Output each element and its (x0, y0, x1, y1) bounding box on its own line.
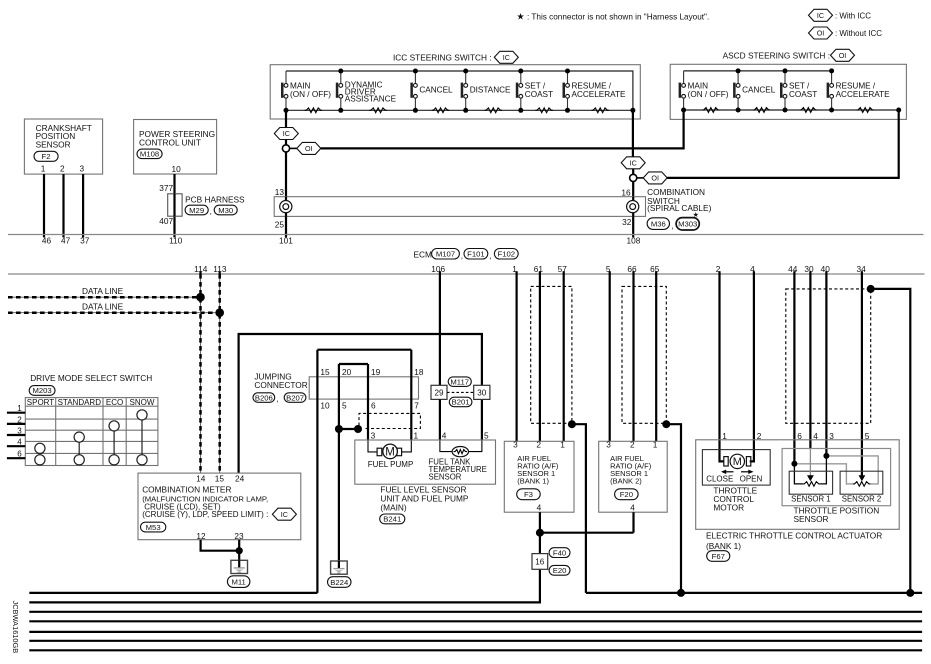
wire IC hexagon to junction node (285, 140, 287, 146)
junction dot meter ground (236, 547, 243, 554)
svg-text:,: , (461, 251, 463, 260)
svg-text:7: 7 (414, 401, 419, 411)
connector oval M36 (647, 218, 669, 230)
arrow OPEN (right) (741, 470, 754, 474)
wire ECM 30 to throttle position sensor pin 4 (wiper 1) (809, 274, 811, 449)
component box POWER STEERING CONTROL UNIT (134, 120, 217, 175)
ASCD bottom bus wire (684, 109, 899, 111)
svg-text:★: ★ (517, 12, 525, 22)
svg-text:3: 3 (513, 440, 518, 450)
svg-text:M: M (733, 456, 742, 468)
shield (dashed) around A/F bank1 wires (531, 286, 572, 423)
svg-text:13: 13 (275, 187, 285, 197)
ECM top boundary line (8, 234, 924, 236)
svg-text:: With ICC: : With ICC (835, 12, 871, 21)
wire meter pin 12 to ground junction (201, 540, 240, 551)
fuel tank temperature sensor symbol (thermistor) (452, 447, 468, 457)
svg-text:,: , (490, 251, 492, 260)
connector oval B241 (380, 514, 405, 524)
svg-text:DRIVE MODE SELECT SWITCH: DRIVE MODE SELECT SWITCH (30, 373, 152, 383)
svg-text:(ON / OFF): (ON / OFF) (290, 90, 331, 99)
connector oval B206 (253, 393, 275, 403)
switch RESUME / (ICC) (563, 71, 627, 110)
svg-text:16: 16 (621, 187, 631, 197)
arrow CLOSE (left) (721, 470, 734, 474)
svg-text:ECM: ECM (414, 249, 433, 259)
svg-text:ACCELERATE: ACCELERATE (836, 90, 891, 99)
labels FUEL TANK TEMPERATURE SENSOR (429, 457, 487, 481)
svg-text:IC: IC (630, 158, 637, 167)
hexagon OI on ASCD right branch (643, 172, 667, 184)
wiper 1 (gray) with arrow (807, 449, 814, 482)
bridge wire jumping connector 15 to 18 (317, 349, 411, 351)
svg-text:M108: M108 (140, 150, 159, 159)
svg-text:OI: OI (839, 51, 847, 60)
svg-text:CONTROL UNIT: CONTROL UNIT (139, 137, 201, 147)
svg-text:16: 16 (535, 558, 545, 567)
wire TPS pin6 to sensor1 track left (794, 464, 803, 484)
svg-text:(ON / OFF): (ON / OFF) (688, 90, 729, 99)
pin labels 12 23 of combination meter (196, 531, 244, 541)
connector oval M108 (137, 149, 162, 159)
svg-text:101: 101 (279, 236, 293, 246)
pin labels 14 15 24 of combination meter (196, 474, 244, 484)
wire junction down through connector 16 to bus (29, 533, 540, 603)
svg-text:STANDARD: STANDARD (58, 398, 102, 407)
switch CANCEL (ASCD) (733, 71, 776, 110)
svg-text:4: 4 (442, 430, 447, 440)
svg-text:10: 10 (171, 164, 181, 174)
wire DATA LINE 2 (dashed) (8, 312, 220, 314)
svg-text:61: 61 (534, 264, 544, 274)
junction dot bus1 bank2 drain (677, 589, 685, 597)
hexagon IC on ICC right output (621, 157, 645, 169)
row pin stubs and labels 1 2 3 4 6 (7, 404, 25, 459)
pin labels 3 2 1 of A/F bank1 (513, 440, 565, 450)
switch DISTANCE (ICC) (461, 71, 511, 110)
component box AIR FUEL RATIO (A/F) SENSOR 1 (BANK 1) (504, 441, 574, 512)
bus line 7 (29, 649, 922, 651)
svg-text:COMBINATION METER: COMBINATION METER (142, 485, 231, 495)
connector oval B224 (328, 577, 352, 588)
ECM bottom boundary line (8, 273, 925, 275)
svg-text:18: 18 (414, 367, 424, 377)
track wire sensor1 left (gray) (794, 464, 853, 484)
svg-text:47: 47 (61, 236, 71, 246)
svg-text:M117: M117 (450, 377, 469, 386)
component box COMBINATION SWITCH (SPIRAL CABLE) (274, 197, 645, 217)
ECM bottom pin stubs (201, 271, 862, 275)
svg-text:15: 15 (320, 367, 330, 377)
spiral cable symbol right (627, 201, 639, 213)
connector oval M29 (185, 205, 208, 215)
junction dot data line 2 / pin 113 (215, 308, 224, 317)
svg-text:14: 14 (196, 474, 206, 484)
connector oval M303 (bold) (676, 218, 699, 230)
svg-text:20: 20 (342, 367, 352, 377)
svg-text:COAST: COAST (789, 90, 817, 99)
ASCD top bus junction dots (736, 68, 835, 73)
switch SET / (ASCD) (780, 71, 817, 110)
wire ECM 2 to throttle motor pin 1 (720, 274, 724, 461)
bus line 4 (29, 620, 922, 622)
shield drain dot bank1 (568, 420, 576, 428)
junction dot on ground wire (335, 425, 343, 433)
pin labels 10 5 6 7 (320, 401, 419, 411)
bridge wire jumping connector 20 to 19 (339, 363, 368, 365)
wire ECM 65 to A/F sensor bank2 pin 1 (655, 274, 657, 441)
wire meter pin 23 to ground M11 (238, 540, 240, 561)
svg-text:CLOSE: CLOSE (706, 474, 733, 483)
resistor track sensor 2 (853, 482, 871, 487)
svg-text:B206: B206 (255, 393, 273, 402)
wiper 2 arrow (859, 475, 866, 481)
svg-text:SNOW: SNOW (130, 398, 155, 407)
svg-text:,: , (210, 207, 212, 216)
svg-text:37: 37 (80, 236, 90, 246)
svg-text:DISTANCE: DISTANCE (470, 86, 511, 95)
switch box ICC STEERING SWITCH (270, 65, 640, 119)
svg-text:JCBWA1610GB: JCBWA1610GB (11, 601, 20, 654)
svg-text:3: 3 (371, 430, 376, 440)
sensor 2 box (840, 471, 883, 494)
svg-text:25: 25 (275, 220, 285, 230)
svg-text:65: 65 (650, 264, 660, 274)
svg-text:ELECTRIC THROTTLE CONTROL ACTU: ELECTRIC THROTTLE CONTROL ACTUATOR (706, 530, 882, 540)
wire ECM 5 to A/F sensor bank2 pin 3 (609, 274, 611, 441)
wire node 2 to OI hexagon 2 (637, 177, 644, 179)
dashed link between connector halves 29-30 (447, 391, 474, 393)
legend hexagon OI : Without ICC (809, 27, 833, 39)
svg-text:E20: E20 (553, 566, 567, 575)
svg-text:DATA LINE: DATA LINE (82, 301, 124, 311)
wire connector 29 down to fuel tank temperature sensor pin 4 (439, 399, 441, 440)
wire ECM 114 to combination meter pin 14 (dashed) (200, 274, 202, 473)
component box CRANKSHAFT POSITION SENSOR (24, 119, 102, 174)
junction dot data line 1 / pin 114 (196, 293, 205, 302)
svg-text:19: 19 (371, 367, 381, 377)
svg-text:IC: IC (817, 11, 824, 20)
svg-text:B224: B224 (330, 578, 349, 587)
wire IC hexagon to junction node 2 (632, 169, 634, 175)
shield drain dot of fuel pump shield (354, 425, 362, 433)
svg-text:SENSOR 1: SENSOR 1 (791, 495, 830, 504)
svg-text:6: 6 (17, 450, 22, 459)
ASCD top bus wire (684, 70, 832, 72)
svg-text:F20: F20 (620, 490, 633, 499)
svg-text:(MAIN): (MAIN) (380, 502, 407, 512)
wire connector 30 down to fuel tank temperature sensor pin 5 (481, 399, 483, 440)
svg-text:ASSISTANCE: ASSISTANCE (345, 95, 397, 104)
connector oval F67 (707, 551, 730, 562)
wire ASCD MAIN switch down (682, 110, 684, 150)
labels FUEL LEVEL SENSOR UNIT AND FUEL PUMP (MAIN) (380, 485, 469, 513)
pin labels 1 2 6 4 3 5 of electric throttle control actuator (722, 431, 869, 441)
svg-text:4: 4 (537, 503, 542, 513)
connector oval M203 (29, 386, 55, 396)
switch MAIN (ICC) (281, 71, 331, 110)
switch CANCEL (ICC) (410, 71, 453, 110)
resistors between ICC switch legs (305, 108, 609, 113)
ICC bottom bus junction dots (284, 108, 636, 113)
svg-text:6: 6 (371, 401, 376, 411)
svg-text:(BANK 2): (BANK 2) (610, 477, 642, 486)
wire ECM 113 to combination meter pin 15 (dashed) (219, 274, 221, 473)
ICC bottom bus wire (286, 109, 633, 111)
svg-text:COAST: COAST (525, 90, 553, 99)
pin labels 3 1 4 5 of fuel level sensor unit (371, 430, 489, 440)
svg-text:F67: F67 (712, 552, 725, 561)
labels SENSOR 1 / SENSOR 2 (791, 495, 881, 504)
connector oval E20 (549, 565, 570, 575)
svg-text:108: 108 (626, 236, 640, 246)
svg-text:2: 2 (630, 440, 635, 450)
svg-text:2: 2 (536, 440, 541, 450)
wire spiral cable pin 32 to ECM 108 (632, 216, 634, 237)
svg-text:10: 10 (320, 401, 330, 411)
wire crankshaft pin 1 to ECM 46 (43, 174, 45, 237)
svg-text:3: 3 (79, 164, 84, 174)
pin labels 3 2 1 of A/F bank2 (606, 440, 658, 450)
connector oval F3 (517, 489, 541, 500)
svg-text:1: 1 (17, 404, 22, 413)
svg-text:F3: F3 (524, 490, 533, 499)
svg-text:OI: OI (817, 29, 825, 38)
svg-text:2: 2 (60, 164, 65, 174)
svg-text:1: 1 (653, 440, 658, 450)
shield drain wire bank1 to ground bus (572, 424, 586, 593)
svg-text:OI: OI (305, 144, 313, 153)
wire ECM 61 to A/F sensor bank1 pin 2 (539, 274, 541, 441)
svg-text:3: 3 (17, 426, 22, 435)
wire OI hexagon 2 to ASCD right leg (667, 177, 899, 179)
wire jumping connector pin 18/7 to fuel pump pin 1 (410, 350, 412, 440)
ground bus line 1 right segment (shield drains) (586, 592, 922, 594)
inner box throttle position sensor (782, 449, 891, 506)
ASCD bottom bus junction dots (681, 108, 901, 113)
connector oval B207 (284, 393, 306, 403)
hexagon OI on ASCD branch (297, 142, 321, 154)
wire crankshaft pin 3 to ECM 37 (82, 174, 84, 237)
wire combination meter pin 24 to connector M117/B201 pin 30 (239, 334, 482, 473)
pin box 30 (474, 385, 490, 399)
svg-text:B201: B201 (452, 398, 470, 407)
component box COMBINATION METER (138, 473, 301, 540)
hexagon IC on ICC switch output (274, 128, 298, 140)
wire spiral cable pin 25 to ECM 101 (285, 216, 287, 237)
svg-text:DATA LINE: DATA LINE (82, 286, 124, 296)
ground symbol B224 (331, 561, 348, 574)
svg-text:24: 24 (235, 474, 245, 484)
shield (dashed) around throttle position sensor wires (786, 289, 871, 423)
shield (dashed) around A/F bank2 wires (622, 286, 666, 423)
svg-text:57: 57 (558, 264, 568, 274)
ICC top bus junction dots (338, 69, 570, 74)
svg-text:SENSOR: SENSOR (36, 139, 71, 149)
svg-text:IC: IC (503, 53, 510, 62)
svg-text:,: , (277, 395, 279, 404)
hexagon OI for ASCD label (831, 49, 855, 61)
pin labels 1 2 3 of crankshaft sensor (41, 164, 85, 174)
switch contacts drive mode select (35, 410, 147, 465)
wire jumping connector pin 20/5 down to ground B224 (338, 364, 340, 561)
connector oval M53 (141, 522, 166, 532)
svg-text:1: 1 (560, 440, 565, 450)
svg-text:4: 4 (630, 503, 635, 513)
wire ECM 34 to throttle position sensor pin 5 (wiper 2) (861, 274, 863, 476)
switch RESUME / (ASCD) (827, 71, 891, 110)
wire ICC MAIN switch down to IC connector symbol (285, 110, 287, 128)
switch box ASCD STEERING SWITCH (670, 64, 906, 119)
svg-text:M36: M36 (651, 219, 666, 228)
wire crankshaft pin 2 to ECM 47 (62, 174, 64, 237)
switch MAIN (ASCD) (679, 71, 729, 110)
svg-text:F40: F40 (553, 548, 566, 557)
throttle control motor symbol M (724, 454, 751, 468)
sub-box throttle control motor (702, 450, 770, 486)
svg-text:(SPIRAL CABLE): (SPIRAL CABLE) (647, 203, 711, 213)
wire ECM 57 to A/F sensor bank1 pin 1 (563, 274, 565, 441)
connector oval F2 (34, 151, 58, 161)
wire A/F bank2 pin 4 down to junction (632, 512, 634, 533)
svg-text:B241: B241 (383, 515, 401, 524)
table DRIVE MODE SELECT SWITCH grid (25, 398, 158, 466)
junction dot TPS pin 6 (791, 461, 797, 467)
wire node 2 down to spiral cable pin 16 (632, 182, 634, 197)
wire TPS pin3 to sensor1 track right (820, 456, 826, 484)
wire ECM 4 to throttle motor pin 2 (750, 274, 754, 461)
fuel pump motor symbol (377, 444, 402, 459)
svg-text:M11: M11 (231, 577, 245, 586)
wire jumping connector pin 15/10 down to ground bus (316, 350, 318, 593)
svg-text:M29: M29 (189, 206, 204, 215)
junction node circle 2 (630, 174, 637, 181)
wire A/F bank1 pin 4 down (539, 512, 541, 533)
ground symbol M11 (231, 560, 248, 573)
svg-text:OPEN: OPEN (740, 474, 763, 483)
svg-text:5: 5 (342, 401, 347, 411)
component box ELECTRIC THROTTLE CONTROL ACTUATOR (696, 440, 900, 530)
labels ELECTRIC THROTTLE CONTROL ACTUATOR (BANK 1) (706, 530, 882, 551)
labels CLOSE OPEN (706, 474, 762, 483)
switch DYNAMIC (ICC) (336, 71, 397, 110)
wire power steering pin 10 to ECM 110 (173, 174, 175, 237)
connector oval B201 (449, 397, 472, 407)
wire ECM 44 to throttle position sensor pin 6 (793, 274, 795, 464)
wire junction to A/F bank2 pin 4 (540, 532, 634, 534)
shield drain wire TPS to ground bus (871, 289, 911, 593)
junction node circle below ICC switch (282, 145, 289, 152)
wire ECM 66 to A/F sensor bank2 pin 2 (632, 274, 634, 441)
svg-text:ASCD STEERING SWITCH :: ASCD STEERING SWITCH : (723, 51, 830, 61)
shield (dashed) around fuel pump wires (359, 413, 420, 428)
svg-text:ACCELERATE: ACCELERATE (572, 90, 627, 99)
junction dot TPS pin 3 (823, 453, 829, 459)
svg-text:M: M (385, 447, 395, 459)
svg-text:F2: F2 (42, 152, 51, 161)
bus line 5 (29, 631, 922, 633)
component box FUEL LEVEL SENSOR UNIT AND FUEL PUMP (355, 440, 496, 484)
svg-text:: Without ICC: : Without ICC (835, 29, 882, 38)
wire OI hexagon to ASCD MAIN switch (321, 147, 684, 149)
sensor 1 box (789, 471, 832, 494)
pin labels 15 20 19 18 (320, 367, 424, 377)
svg-text:30: 30 (804, 264, 814, 274)
wire through spiral cable left (285, 197, 287, 217)
svg-text:SENSOR 2: SENSOR 2 (842, 495, 881, 504)
svg-text:30: 30 (477, 389, 487, 398)
svg-text:CANCEL: CANCEL (742, 86, 776, 95)
connector box JUMPING CONNECTOR (309, 377, 418, 399)
svg-text:2: 2 (17, 415, 22, 424)
spiral cable symbol left (280, 201, 292, 213)
ICC top bus wire (286, 71, 633, 110)
svg-text:46: 46 (42, 236, 52, 246)
svg-text:(BANK 1): (BANK 1) (517, 477, 549, 486)
svg-text:4: 4 (17, 438, 22, 447)
svg-text:106: 106 (431, 264, 445, 274)
ground bus line 1 left segment (from jumping connector) (29, 592, 317, 594)
connector oval M117 (448, 377, 471, 387)
svg-text:MOTOR: MOTOR (713, 503, 744, 513)
wire ECM 106 to connector M117/B201 pin 29 (439, 274, 441, 385)
component box AIR FUEL RATIO (A/F) SENSOR 1 (BANK 2) (599, 441, 668, 512)
svg-text:CANCEL: CANCEL (419, 86, 453, 95)
svg-text:ECO: ECO (106, 398, 123, 407)
svg-text:M30: M30 (218, 206, 233, 215)
bus line 6 (29, 640, 922, 642)
ECM bottom pin labels (194, 264, 866, 274)
svg-text:15: 15 (215, 474, 225, 484)
wire ASCD right leg down (898, 110, 900, 179)
svg-text:M107: M107 (436, 250, 455, 259)
svg-text:407: 407 (159, 216, 173, 226)
wire node down to spiral cable pin 13 (285, 152, 287, 197)
svg-text:SENSOR: SENSOR (794, 514, 829, 524)
legend hexagon IC : With ICC (809, 9, 833, 21)
hexagon IC for ICC label (494, 51, 518, 63)
svg-text:F102: F102 (498, 250, 516, 259)
bus line 3 (29, 611, 922, 613)
connector oval F20 (615, 489, 639, 500)
connector oval M11 (227, 576, 250, 588)
ECM top pin labels 46 47 37 110 101 108 (42, 236, 641, 246)
svg-text:ICC STEERING SWITCH :: ICC STEERING SWITCH : (393, 53, 492, 63)
labels JUMPING CONNECTOR (254, 371, 307, 390)
svg-text:,: , (671, 222, 673, 231)
wire jumping connector pin 19/6 to fuel pump pin 3 (367, 364, 369, 440)
connector oval M30 (214, 205, 237, 215)
svg-text:F101: F101 (467, 250, 485, 259)
svg-text:IC: IC (281, 510, 288, 519)
svg-text:M203: M203 (32, 386, 51, 395)
track wire sensor2 right (gray) (826, 456, 878, 484)
shield drain wire bank2 to ground bus (666, 424, 681, 593)
svg-text:44: 44 (788, 264, 798, 274)
svg-text:SPORT: SPORT (27, 398, 55, 407)
svg-text:66: 66 (627, 264, 637, 274)
connector oval M107 (432, 249, 460, 260)
connector oval F101 (464, 249, 488, 260)
svg-text:M303: M303 (678, 220, 697, 229)
svg-text:IC: IC (283, 129, 290, 138)
connector box PCB HARNESS (168, 194, 182, 216)
switch SET / (ICC) (516, 71, 553, 110)
wire node to OI hexagon (290, 147, 297, 149)
svg-text:32: 32 (622, 217, 632, 227)
wire ICC switch right side down to IC hexagon (632, 110, 634, 157)
junction dot A/F heater grounds (536, 529, 544, 537)
